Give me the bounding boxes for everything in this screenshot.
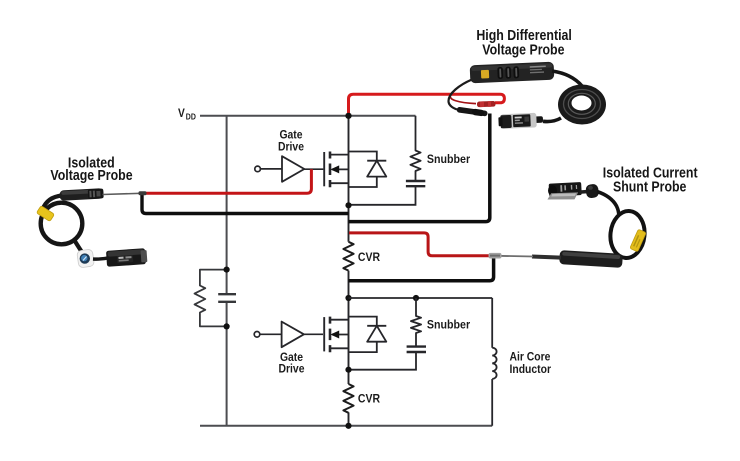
P1 red pigtail lead	[450, 78, 476, 104]
svg-text:Voltage Probe: Voltage Probe	[482, 41, 564, 57]
op-amp U1 (upper gate drive buffer)	[282, 156, 304, 182]
node H (bottom rail junction)	[345, 423, 351, 429]
wire: VDD top rail	[200, 115, 416, 117]
P3 cable from knob into loop	[597, 192, 619, 216]
wire: lower snubber bottom return	[349, 352, 417, 370]
node F (lower snubber tap)	[413, 295, 419, 301]
op-amp U2 (lower gate drive buffer)	[282, 322, 304, 348]
capacitor (lower snubber C)	[407, 347, 426, 352]
node E (switch node)	[345, 295, 351, 301]
wire: left vertical bus	[226, 116, 228, 426]
wire: Q2 drain lead	[330, 319, 349, 321]
wire: U1 input lead	[261, 168, 282, 170]
svg-text:CVR: CVR	[358, 393, 380, 406]
node B (left RC bottom junction)	[224, 323, 230, 329]
label: Air Core Inductor	[510, 351, 552, 376]
P3 yellow tag	[630, 229, 646, 252]
svg-text:CVR: CVR	[358, 252, 380, 265]
P2 yellow tag	[36, 206, 54, 222]
gate drive U1 input terminal	[255, 166, 261, 172]
wire: Q2 source lead	[330, 347, 349, 349]
wire: black lead of current shunt probe (to CVR bottom)	[349, 258, 494, 281]
svg-text:Drive: Drive	[279, 363, 305, 376]
P1 amplifier body	[470, 62, 555, 84]
node D (VDD / Q1 drain junction)	[345, 113, 351, 119]
transistor Q2 body arrow	[330, 331, 339, 339]
resistor CVR1 (upper current viewing resistor)	[343, 242, 353, 271]
diode D2 (lower freewheel)	[349, 317, 377, 353]
label: Isolated Current Shunt Probe	[603, 165, 698, 195]
svg-text:Snubber: Snubber	[427, 319, 471, 332]
svg-text:Shunt Probe: Shunt Probe	[613, 179, 686, 195]
label: High Differential Voltage Probe	[476, 27, 571, 57]
wire: black lead of isolated voltage probe (to Q1 source)	[142, 195, 349, 214]
resistor CVR2 (lower current viewing resistor)	[343, 384, 353, 413]
P3 shunt body	[559, 250, 623, 268]
P1 red plug	[477, 101, 496, 107]
P1 interface connector box	[498, 113, 543, 130]
probe P3: isolated current shunt probe (photo, right)	[489, 182, 647, 268]
wire: switch node to inductor	[349, 297, 493, 299]
transistor Q1 (upper MOSFET) gate bar	[323, 152, 325, 186]
label: Gate Drive (upper)	[278, 129, 304, 154]
inductor L1 (air core)	[492, 298, 496, 426]
svg-text:DD: DD	[186, 112, 197, 122]
wire: red lead of current shunt probe (to CVR top)	[349, 233, 490, 256]
wire: red lead of high differential voltage probe (to VDD node)	[349, 94, 505, 116]
P3 cable loop exit to body	[594, 255, 613, 262]
P1 cable from body to coil	[552, 71, 582, 86]
P3 knob stem	[579, 190, 588, 194]
node A (left RC top junction)	[224, 267, 230, 273]
transistor Q1 channel segments	[329, 152, 332, 188]
P2 cable stub to compensation box	[93, 258, 108, 259]
resistor (left bus damping R)	[194, 270, 226, 327]
P3 cable loop	[608, 209, 647, 259]
wire: U1 output to Q1 gate	[304, 168, 323, 170]
node VDD label	[178, 108, 196, 122]
wire: Q1 body lead	[332, 168, 349, 170]
wire: U2 output to Q2 gate	[304, 333, 323, 335]
P2 cable from body into loop	[43, 196, 63, 210]
P2 amplifier pod body	[59, 188, 103, 201]
wire: upper snubber bottom return	[349, 186, 416, 205]
P1 coiled cable	[558, 85, 606, 125]
wire: black lead of high differential voltage probe (to switch node side)	[349, 114, 490, 222]
wire: main switching leg (drain of Q1 to VDD, down to bottom rail)	[348, 116, 350, 426]
transistor Q2 channel segments	[329, 317, 332, 353]
P1 cable from coil to connector box	[543, 118, 561, 122]
P3 needle tip	[496, 255, 533, 258]
svg-text:V: V	[178, 108, 185, 121]
label: Isolated Voltage Probe	[50, 154, 132, 183]
node G (Q2 source node)	[345, 367, 351, 373]
resistor (upper snubber R)	[410, 116, 420, 181]
P2 tip ferrule	[139, 191, 147, 195]
P2 compensation box	[106, 248, 148, 267]
capacitor (left bus C, inline)	[218, 294, 236, 302]
svg-text:Air Core: Air Core	[510, 351, 551, 364]
P2 cable loop	[41, 203, 83, 245]
P3 top connector block with fins	[547, 182, 582, 201]
resistor (lower snubber R)	[411, 298, 421, 347]
wire: U2 input lead	[260, 333, 281, 335]
P3 shaft	[532, 257, 561, 258]
P2 cable loop exit to connector	[75, 241, 86, 258]
P3 tip clamp	[489, 253, 502, 259]
P1 black pigtail lead	[449, 80, 473, 110]
gate drive U2 input terminal	[254, 332, 260, 338]
wire: bottom rail	[200, 425, 492, 427]
svg-text:Voltage Probe: Voltage Probe	[50, 167, 132, 183]
wire: red lead of isolated voltage probe (to Q1 gate)	[145, 169, 311, 193]
svg-text:Drive: Drive	[278, 141, 304, 154]
svg-text:Inductor: Inductor	[510, 363, 552, 376]
wire: Q2 body lead	[332, 334, 349, 336]
svg-text:Snubber: Snubber	[427, 154, 471, 167]
P2 connector tag (white/blue)	[77, 249, 95, 268]
probe P2: isolated voltage probe (photo, left)	[36, 188, 147, 268]
wire: Q1 source lead	[330, 182, 349, 184]
P2 probe tip wire	[103, 193, 146, 194]
capacitor (upper snubber C)	[406, 181, 425, 186]
P3 knob	[585, 184, 599, 199]
node D repaint (junction dot over red)	[345, 113, 351, 119]
transistor Q1 body arrow	[330, 165, 339, 173]
probe P1: high differential voltage probe (photo, top right)	[449, 62, 607, 129]
wire: Q1 drain lead	[330, 154, 349, 156]
P1 black tip connector	[456, 106, 488, 117]
node C (Q1 source node)	[345, 202, 351, 208]
label: Gate Drive (lower)	[279, 351, 305, 375]
transistor Q2 (lower MOSFET) gate bar	[323, 317, 325, 351]
diode D1 (upper freewheel)	[349, 152, 377, 188]
